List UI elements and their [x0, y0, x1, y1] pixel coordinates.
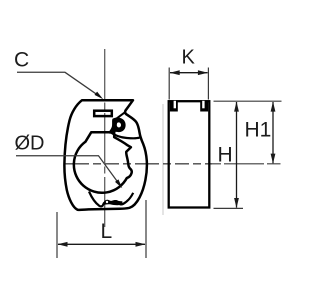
svg-text:H1: H1 — [245, 119, 272, 142]
channel body (front view) — [169, 101, 210, 207]
tongue ratchet teeth (dark zigzag) — [103, 200, 123, 206]
top extension line for H/H1 — [214, 100, 282, 102]
dimension L line with arrows — [58, 243, 145, 245]
dimension K line with arrows — [170, 72, 208, 74]
dimension ØD leader — [16, 156, 118, 182]
svg-text:C: C — [14, 49, 29, 72]
latch arm inner diagonal — [116, 112, 125, 119]
dimension C leader — [17, 72, 97, 94]
bottom extension line for H — [214, 207, 244, 209]
latch mouth lower lip — [111, 133, 140, 139]
cable opening (circle with latch notches) — [74, 132, 132, 192]
clamp outer profile — [64, 100, 147, 210]
right top hook — [200, 101, 208, 112]
strap window — [94, 111, 112, 116]
tongue scribble white loop — [106, 201, 108, 203]
dimension ØD arrowhead — [115, 179, 122, 188]
dimension H line with arrows — [236, 102, 238, 208]
dimension L extension lines — [56, 212, 58, 258]
centerline extension toward H1 — [212, 163, 281, 165]
latch pawl (dark comma) — [109, 117, 126, 134]
svg-text:ØD: ØD — [15, 133, 45, 155]
horizontal centerline through both views — [65, 163, 212, 165]
left top hook — [170, 101, 178, 112]
vertical centerline of clamp — [104, 49, 106, 229]
dimension H1 line with arrows — [272, 102, 274, 163]
dimension K extension lines — [168, 68, 170, 100]
svg-text:K: K — [182, 47, 196, 69]
svg-text:H: H — [218, 143, 233, 166]
svg-text:L: L — [101, 220, 113, 243]
bottom tongue detail — [89, 192, 133, 207]
dimension C arrowhead — [95, 92, 104, 100]
pawl inner white sliver — [117, 122, 121, 127]
faint projection line between views — [162, 104, 164, 215]
